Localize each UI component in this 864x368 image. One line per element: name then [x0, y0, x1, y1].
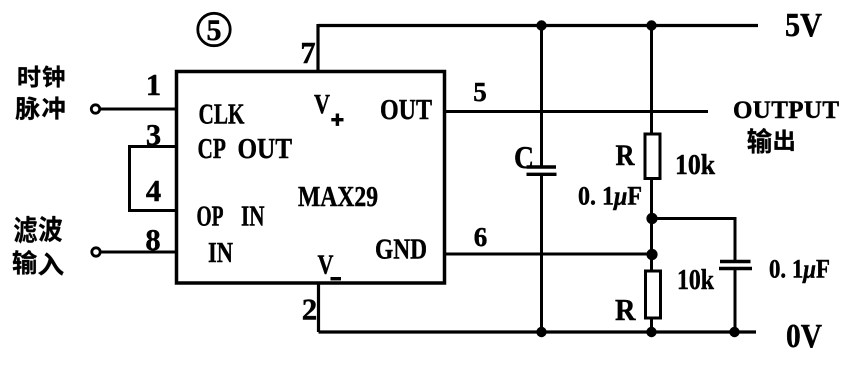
- wire: C2 branch lower segment: [734, 269, 737, 332]
- svg-text:IN: IN: [241, 201, 265, 233]
- label filter-input char 3 (shu): [13, 250, 37, 275]
- svg-text:8: 8: [145, 223, 160, 257]
- wire: 0V bottom rail: [319, 330, 757, 333]
- label clock-pulse char 4 (chong): [42, 97, 64, 120]
- svg-text:7: 7: [300, 36, 315, 70]
- svg-text:OUT: OUT: [380, 94, 432, 126]
- junction: 0V rail / resistor branch: [646, 327, 656, 337]
- wire: pin 8 filter input: [100, 251, 177, 254]
- svg-text:V: V: [314, 89, 330, 119]
- svg-text:0V: 0V: [786, 318, 822, 355]
- wire: capacitor C branch lower segment: [540, 176, 543, 332]
- wire: pin 7 riser to 5V rail: [316, 24, 319, 73]
- svg-text:OUTPUT: OUTPUT: [733, 97, 839, 124]
- junction: 5V rail / capacitor C branch: [536, 20, 546, 30]
- svg-text:1: 1: [146, 68, 161, 102]
- input terminal circle (clock): [91, 105, 99, 113]
- svg-text:MAX29: MAX29: [298, 181, 378, 213]
- wire: divider tap to C2 horizontal: [652, 217, 736, 220]
- wire: between R1 and R2: [650, 179, 653, 272]
- svg-text:R: R: [615, 292, 636, 327]
- capacitor C2 bottom plate: [719, 267, 752, 271]
- label filter-input char 2 (bo): [39, 216, 62, 242]
- svg-text:C: C: [514, 139, 534, 175]
- svg-text:5: 5: [207, 14, 222, 47]
- svg-text:4: 4: [146, 174, 161, 208]
- input terminal circle (filter): [92, 248, 100, 256]
- label output char 2 (chu): [774, 129, 793, 151]
- svg-text:0. 1μF: 0. 1μF: [578, 182, 642, 211]
- svg-text:OUT: OUT: [238, 133, 293, 165]
- svg-text:GND: GND: [375, 234, 427, 266]
- wire: 5V top rail: [318, 24, 758, 27]
- svg-text:R: R: [616, 140, 636, 172]
- wire: pin 1 CLK input: [100, 108, 177, 111]
- svg-text:OP: OP: [197, 201, 224, 233]
- junction: 5V rail / resistor R branch: [646, 20, 656, 30]
- label output char 1 (shu): [747, 128, 771, 154]
- resistor R2 body: [646, 271, 661, 318]
- svg-text:6: 6: [474, 222, 488, 252]
- wire: pin 3 to pin 4 external loop: [130, 147, 177, 211]
- svg-text:V: V: [318, 250, 334, 280]
- label filter-input char 4 (ru): [38, 252, 63, 275]
- op-amp / IC U1 MAX29 body: [177, 72, 445, 284]
- svg-text:5: 5: [473, 77, 487, 107]
- resistor R1 body: [645, 134, 660, 179]
- junction: divider / GND wire: [646, 249, 657, 260]
- svg-text:0. 1μF: 0. 1μF: [769, 255, 830, 284]
- capacitor C2 top plate: [720, 260, 751, 264]
- label clock-pulse char 1 (shi): [19, 66, 41, 88]
- svg-text:CLK: CLK: [199, 99, 245, 131]
- wire: capacitor C branch upper segment: [540, 26, 543, 167]
- svg-text:10k: 10k: [675, 150, 715, 181]
- label clock-pulse char 2 (zhong): [42, 66, 64, 88]
- wire: R branch from 5V rail to R1: [650, 26, 653, 136]
- svg-text:IN: IN: [208, 237, 233, 269]
- svg-text:CP: CP: [198, 133, 227, 165]
- IC pin label CP OUT: [198, 133, 293, 165]
- wire: R2 to 0V rail: [650, 318, 653, 332]
- capacitor C top plate: [527, 165, 557, 168]
- label clock-pulse char 3 (mai): [16, 97, 40, 120]
- IC pin label OP IN: [197, 201, 265, 233]
- svg-text:5V: 5V: [785, 7, 822, 44]
- label filter-input char 1 (lv): [14, 216, 37, 244]
- wire: pin 6 GND to divider midpoint: [445, 253, 652, 256]
- wire: pin 5 OUT to output terminal: [445, 110, 709, 113]
- junction: divider / C2 takeoff: [646, 213, 657, 224]
- wire: C2 branch upper segment: [734, 217, 737, 261]
- circled figure number 5 badge: [198, 13, 230, 47]
- capacitor C bottom plate: [527, 173, 557, 176]
- svg-text:2: 2: [302, 292, 318, 327]
- junction: 0V rail / capacitor C branch: [536, 327, 546, 337]
- junction: 0V rail / capacitor C2 branch: [729, 327, 739, 337]
- IC pin label V-: [318, 250, 342, 281]
- svg-text:3: 3: [146, 118, 161, 152]
- IC pin label V+: [314, 89, 344, 126]
- svg-text:10k: 10k: [677, 265, 714, 296]
- wire: pin 2 riser to 0V rail: [317, 283, 320, 332]
